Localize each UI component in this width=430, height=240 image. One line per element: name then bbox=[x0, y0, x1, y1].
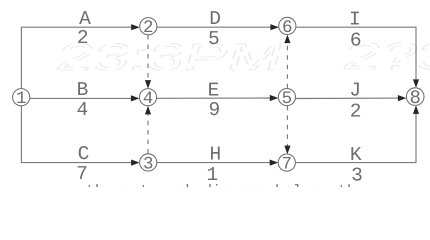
svg-text:the not-work diagram belong th: the not-work diagram belong the bbox=[86, 183, 365, 187]
svg-text:9: 9 bbox=[208, 99, 220, 121]
svg-text:4: 4 bbox=[143, 89, 154, 109]
svg-text:3: 3 bbox=[143, 154, 154, 174]
svg-text:5: 5 bbox=[208, 28, 220, 50]
svg-text:5: 5 bbox=[282, 89, 293, 109]
svg-text:H: H bbox=[209, 143, 221, 165]
svg-text:K: K bbox=[350, 144, 362, 166]
svg-text:1: 1 bbox=[206, 164, 218, 186]
svg-text:I: I bbox=[349, 9, 361, 31]
svg-text:6: 6 bbox=[282, 18, 293, 38]
svg-text:4: 4 bbox=[76, 99, 88, 121]
svg-text:J: J bbox=[349, 80, 361, 102]
svg-text:7: 7 bbox=[282, 155, 293, 175]
svg-text:3: 3 bbox=[351, 164, 363, 186]
svg-text:B: B bbox=[77, 79, 89, 101]
svg-text:2: 2 bbox=[143, 18, 154, 38]
svg-text:2: 2 bbox=[350, 101, 362, 123]
svg-text:7: 7 bbox=[76, 163, 88, 185]
svg-text:2: 2 bbox=[77, 27, 89, 49]
svg-text:1: 1 bbox=[16, 89, 27, 109]
svg-text:D: D bbox=[209, 8, 221, 30]
svg-text:6: 6 bbox=[350, 29, 362, 51]
svg-text:8: 8 bbox=[409, 87, 420, 109]
svg-text:C: C bbox=[78, 143, 90, 165]
